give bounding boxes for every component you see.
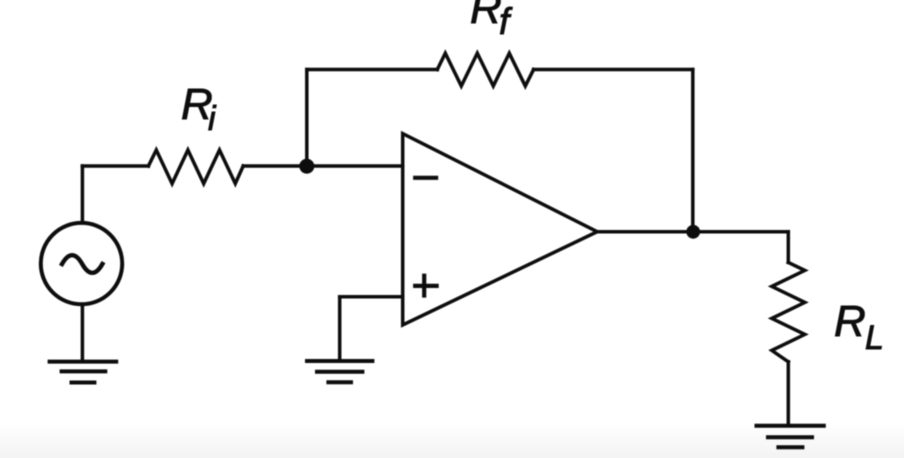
- AC source V1: [41, 223, 122, 304]
- wire source to ground: [81, 306, 85, 361]
- bottom fade strip: [0, 422, 904, 458]
- svg-text:f: f: [499, 1, 513, 42]
- wire to resistor Ri: [82, 164, 148, 168]
- node A junction dot: [299, 159, 314, 174]
- resistor Ri: [148, 150, 243, 184]
- op-amp minus label: [413, 176, 438, 180]
- wire feedback top left: [307, 68, 438, 72]
- node B output junction dot: [686, 225, 700, 239]
- op-amp plus label: [413, 274, 439, 298]
- wire op-amp output: [597, 230, 788, 234]
- svg-text:i: i: [208, 100, 217, 138]
- wire down to RL: [787, 232, 791, 263]
- wire Ri to op-amp inverting input: [243, 164, 403, 168]
- svg-text:L: L: [865, 319, 884, 357]
- ground (op-amp + input): [307, 361, 372, 382]
- wire feedback down to output: [691, 70, 695, 232]
- wire feedback top right: [534, 68, 693, 72]
- op-amp U1: [403, 134, 598, 325]
- AC sine symbol: [62, 255, 102, 273]
- resistor Rf: [437, 53, 533, 86]
- wire feedback riser: [305, 70, 309, 167]
- ground (load): [757, 426, 824, 448]
- wire source-top to Ri level: [81, 166, 85, 221]
- resistor RL: [772, 262, 805, 361]
- svg-text:R: R: [834, 297, 866, 346]
- wire down to ground at + input: [338, 297, 342, 361]
- wire RL to ground: [787, 362, 791, 426]
- wire non-inverting input: [340, 295, 403, 299]
- ground (source): [50, 362, 117, 383]
- svg-text:R: R: [470, 0, 502, 33]
